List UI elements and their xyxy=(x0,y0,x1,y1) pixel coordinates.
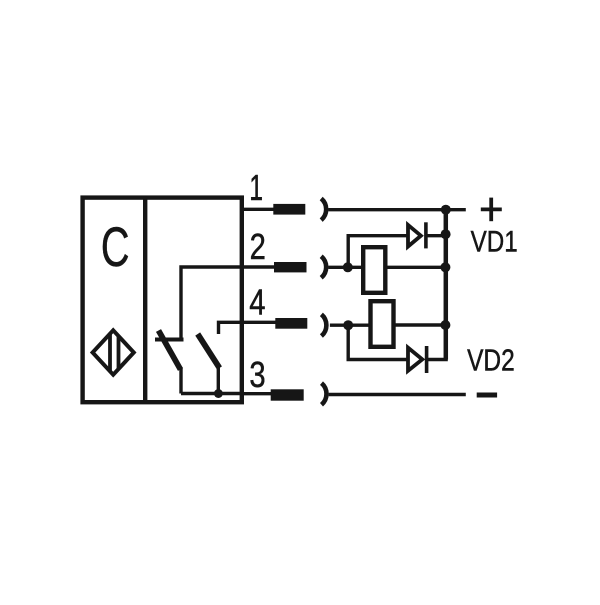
pin label 1 xyxy=(249,167,263,208)
capacitive sensor symbol xyxy=(93,328,134,377)
wire: R1 to column xyxy=(387,266,448,269)
resistor R1 xyxy=(363,247,385,293)
wire: internal common bottom wire xyxy=(181,392,242,395)
node: line2/VD1 branch xyxy=(343,262,353,272)
wire: line 3 to - terminal xyxy=(329,393,466,396)
svg-text:1: 1 xyxy=(249,167,263,208)
wire: line 2 to R1 xyxy=(328,266,362,269)
svg-text:VD2: VD2 xyxy=(467,343,515,377)
wire: line 2 stub xyxy=(244,265,275,268)
connector socket 1 (arc) xyxy=(321,199,326,221)
label C xyxy=(101,217,130,279)
wire: line 4 to R2 xyxy=(330,324,370,327)
connector pin 2 (bar) xyxy=(274,262,307,272)
node: line1/column junction xyxy=(441,205,451,215)
wire: VD2 cathode to column xyxy=(426,358,447,361)
connector pin 1 (bar) xyxy=(273,204,305,215)
diode VD2 xyxy=(408,348,422,371)
wire: VD2 branch vertical xyxy=(347,325,350,359)
wire: VD1 cathode to column xyxy=(426,234,446,237)
pin label 3 xyxy=(249,355,265,396)
resistor R2 xyxy=(371,301,394,347)
pin label 4 xyxy=(249,282,265,323)
minus terminal xyxy=(477,393,497,398)
svg-text:2: 2 xyxy=(250,227,266,268)
connector pin 3 (bar) xyxy=(271,389,304,400)
node: line2/column junction xyxy=(440,262,450,272)
connector pin 4 (bar) xyxy=(275,318,307,329)
plus terminal xyxy=(481,207,502,211)
node: line4/VD2 branch xyxy=(343,320,353,330)
node: VD1/column junction xyxy=(441,229,451,239)
switch S2 arm (NO contact) xyxy=(198,334,220,368)
svg-text:3: 3 xyxy=(249,355,265,396)
wire: line 3 stub xyxy=(244,392,271,395)
wire: line 4 internal lead xyxy=(219,322,242,334)
wire: + column xyxy=(444,210,449,360)
connector socket 4 (arc) xyxy=(321,314,326,336)
wire: R2 to column xyxy=(394,323,447,326)
connector socket 3 (arc) xyxy=(322,383,327,405)
wire: line 1 to + rail xyxy=(328,208,466,211)
wire: S1 lower lead xyxy=(179,368,182,394)
node: line4/column junction xyxy=(440,320,450,330)
diode VD1 xyxy=(408,225,421,247)
wire: line 2 internal lead xyxy=(181,267,242,340)
label VD2 xyxy=(467,343,515,377)
wire: VD2 anode wire xyxy=(347,358,408,361)
sensor body outline xyxy=(83,198,242,403)
junction S2/common xyxy=(214,389,223,398)
wire: VD1 branch vertical xyxy=(347,236,350,268)
label VD1 xyxy=(471,225,518,258)
svg-text:4: 4 xyxy=(249,282,265,323)
wire: VD1 anode wire xyxy=(347,234,408,237)
connector socket 2 (arc) xyxy=(321,256,326,278)
switch S1 arm (NC contact) xyxy=(159,331,181,370)
svg-text:VD1: VD1 xyxy=(471,225,518,258)
switch S1 fixed contact bar xyxy=(155,338,184,342)
wire: line 1 stub xyxy=(244,208,274,211)
svg-text:C: C xyxy=(101,217,130,279)
compartment divider xyxy=(143,196,147,403)
pin label 2 xyxy=(250,227,266,268)
wire: line 4 stub xyxy=(244,321,276,324)
wire: S2 lower lead xyxy=(217,367,220,394)
